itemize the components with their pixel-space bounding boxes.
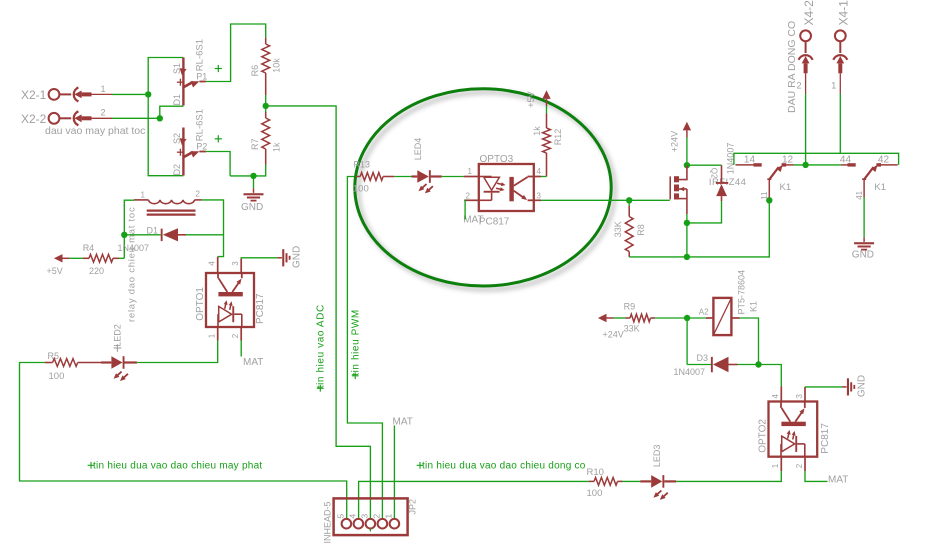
annotation ellipse shadow bbox=[358, 92, 614, 289]
wire X2-2 net riser to D1 bbox=[160, 106, 184, 118]
wire drain node to body diode bbox=[687, 164, 722, 166]
ground GND below R7 bbox=[241, 188, 264, 213]
svg-text:X4-1: X4-1 bbox=[837, 0, 851, 26]
wire X2-2 to junction bbox=[112, 117, 160, 119]
supply +5V for R4 bbox=[47, 254, 70, 276]
wire bottom rail R8 to K1 pin11 bbox=[629, 200, 769, 257]
resistor R6 10k bbox=[250, 38, 282, 95]
svg-text:33K: 33K bbox=[624, 323, 640, 333]
svg-text:D1: D1 bbox=[147, 225, 159, 235]
svg-text:+5V: +5V bbox=[47, 266, 63, 276]
label MAT at JP2 bbox=[393, 416, 413, 427]
resistor R9 33K bbox=[624, 302, 655, 334]
optocoupler OPTO1 PC817 bbox=[195, 257, 266, 341]
svg-text:S2: S2 bbox=[172, 133, 182, 144]
junction X2-2 node bbox=[157, 115, 163, 121]
node + mark near P1 bbox=[215, 65, 222, 72]
svg-text:44: 44 bbox=[840, 154, 852, 165]
wire coil pin1 to left column bbox=[124, 200, 134, 258]
svg-text:1: 1 bbox=[101, 84, 106, 94]
svg-text:GND: GND bbox=[292, 246, 303, 268]
svg-text:1k: 1k bbox=[532, 126, 542, 136]
led LED3 bbox=[640, 445, 676, 500]
svg-text:1: 1 bbox=[141, 190, 146, 199]
wire +24V to drain node bbox=[686, 138, 688, 166]
wire K1 pin41 to GND bbox=[863, 198, 865, 238]
svg-text:3: 3 bbox=[537, 192, 542, 201]
svg-text:3: 3 bbox=[231, 261, 240, 266]
optocoupler OPTO2 PC817 bbox=[757, 386, 831, 471]
svg-text:4: 4 bbox=[208, 261, 217, 266]
svg-text:R5: R5 bbox=[48, 351, 60, 361]
resistor R5 100 bbox=[45, 351, 101, 382]
label tin hieu dua vao dao chieu dong co bbox=[417, 461, 586, 472]
svg-text:RL-6S1: RL-6S1 bbox=[195, 39, 206, 71]
svg-text:MAT: MAT bbox=[463, 215, 483, 226]
svg-text:RL-6S1: RL-6S1 bbox=[195, 109, 206, 141]
svg-text:R9: R9 bbox=[624, 302, 636, 312]
svg-text:10k: 10k bbox=[271, 58, 281, 73]
svg-text:K1: K1 bbox=[874, 182, 886, 193]
wire R4 to column bbox=[119, 257, 124, 259]
wire pin12 to pin44 segment bbox=[794, 164, 841, 166]
connector pin X2-1 bbox=[21, 84, 112, 102]
svg-text:R13: R13 bbox=[354, 160, 371, 170]
connector pin X4-1 bbox=[831, 0, 850, 94]
wire coil pin2 down to OPTO1 pin 4 bbox=[202, 200, 224, 257]
svg-text:14: 14 bbox=[744, 154, 756, 165]
svg-text:dau vao may phat toc: dau vao may phat toc bbox=[45, 125, 145, 137]
annotation ellipse highlight bbox=[355, 89, 611, 286]
svg-text:tin hieu dua vao dao chieu may: tin hieu dua vao dao chieu may phat bbox=[93, 461, 262, 472]
label MAT at OPTO1 bbox=[243, 357, 263, 368]
svg-text:X4-2: X4-2 bbox=[802, 0, 816, 26]
wire OPTO1 pin2 to MAT bbox=[240, 341, 242, 357]
svg-text:R4: R4 bbox=[83, 243, 95, 253]
wire OPTO2 pin2 to MAT bbox=[805, 471, 828, 481]
svg-text:S1: S1 bbox=[172, 63, 182, 74]
wire PWM net from R13 down to JP2 pin 2 bbox=[347, 177, 382, 520]
junction bottom rail center bbox=[684, 254, 690, 260]
resistor R13 100 bbox=[353, 160, 394, 195]
label MAT at OPTO3 bbox=[463, 215, 483, 226]
wire A1 node to OPTO2 pin4 bbox=[759, 365, 782, 387]
svg-text:220: 220 bbox=[89, 266, 104, 276]
led LED4 bbox=[412, 138, 442, 194]
wire X4-1 down to rail bbox=[839, 94, 841, 154]
svg-text:2: 2 bbox=[466, 192, 471, 201]
svg-text:JP2: JP2 bbox=[408, 499, 418, 515]
wire R9 to A2 node bbox=[655, 317, 687, 319]
svg-text:MAT: MAT bbox=[393, 416, 413, 427]
diode D3 1N4007 bbox=[674, 353, 738, 377]
svg-text:2: 2 bbox=[795, 463, 804, 468]
connector pin X2-2 bbox=[21, 108, 112, 126]
svg-text:P1: P1 bbox=[196, 71, 207, 81]
svg-text:+24V: +24V bbox=[603, 330, 624, 340]
wire source node down bbox=[686, 214, 688, 257]
wire OPTO1 pin1 down to LED2 row bbox=[137, 341, 218, 363]
junction drain node bbox=[684, 162, 690, 168]
svg-text:+24V: +24V bbox=[670, 131, 680, 152]
net label tin hieu vao ADC bbox=[316, 304, 327, 391]
wire R13 to LED4 bbox=[394, 176, 411, 178]
junction X4-2/pin12 node bbox=[802, 162, 808, 168]
label relay dao chieu mat toc bbox=[127, 207, 138, 322]
svg-text:K1: K1 bbox=[780, 182, 792, 193]
svg-text:OPTO1: OPTO1 bbox=[195, 287, 206, 321]
svg-text:R12: R12 bbox=[553, 129, 563, 146]
junction GND rail bbox=[250, 173, 256, 179]
svg-text:PC817: PC817 bbox=[820, 423, 831, 454]
svg-text:5: 5 bbox=[335, 514, 345, 519]
wire OPTO1 pin3 to GND bbox=[241, 257, 277, 260]
wire D3 cathode side bbox=[687, 364, 711, 366]
wire LED4 to OPTO3 pin1 bbox=[442, 176, 464, 178]
svg-text:INHEAD-5: INHEAD-5 bbox=[323, 501, 333, 543]
wire D1 anode-side bbox=[124, 234, 160, 236]
svg-text:DAU RA DONG CO: DAU RA DONG CO bbox=[786, 21, 798, 113]
svg-text:MAT: MAT bbox=[828, 475, 848, 486]
svg-text:100: 100 bbox=[587, 488, 603, 499]
junction D3/A1 node bbox=[755, 361, 761, 367]
wire OPTO2 pin3 to GND bbox=[805, 386, 842, 388]
svg-text:relay dao chieu mat toc: relay dao chieu mat toc bbox=[127, 207, 138, 322]
svg-text:1: 1 bbox=[468, 167, 473, 176]
svg-text:A2: A2 bbox=[699, 308, 709, 317]
relay contact K1 14/12/11 bbox=[736, 154, 794, 200]
svg-text:PC817: PC817 bbox=[255, 293, 266, 324]
label DAU RA DONG CO bbox=[786, 21, 798, 113]
svg-text:tin hieu PWM: tin hieu PWM bbox=[351, 309, 362, 376]
resistor R8 33K bbox=[613, 200, 646, 257]
wire R6 bottom to junction bbox=[265, 95, 267, 112]
svg-text:tin hieu vao ADC: tin hieu vao ADC bbox=[316, 304, 327, 388]
svg-text:4: 4 bbox=[771, 394, 780, 399]
wire stub to GND bbox=[253, 176, 255, 188]
ground GND at K1 bbox=[852, 237, 874, 260]
wire D3 to A1 node bbox=[738, 364, 759, 366]
wire divider output to ADC net down to JP2 pin 3 bbox=[266, 106, 371, 519]
label MAT at OPTO2 bbox=[828, 475, 848, 486]
origin cross at LED2 bbox=[114, 344, 122, 352]
wire P2 to GND rail bbox=[206, 152, 230, 176]
diode body 1N4007 at Q2 bbox=[716, 143, 736, 201]
relay coil K1 PT5-78604 bbox=[699, 270, 759, 335]
svg-text:OPTO2: OPTO2 bbox=[757, 419, 768, 453]
resistor R7 1k bbox=[250, 112, 282, 165]
supply +24V for R9 bbox=[598, 314, 624, 340]
svg-text:PT5-78604: PT5-78604 bbox=[736, 270, 746, 315]
svg-text:GND: GND bbox=[856, 375, 867, 397]
svg-text:2: 2 bbox=[371, 514, 381, 519]
wire OPTO3 pin3 to MOSFET gate bbox=[541, 199, 670, 201]
svg-text:1N4007: 1N4007 bbox=[674, 367, 706, 377]
wire P1 to R6 top rail bbox=[206, 24, 266, 82]
resistor R4 220 bbox=[83, 243, 119, 276]
svg-text:4: 4 bbox=[537, 167, 542, 176]
svg-text:1: 1 bbox=[383, 514, 393, 519]
wire R12 to OPTO3 pin4 bbox=[541, 176, 547, 178]
svg-text:R8: R8 bbox=[636, 224, 646, 236]
svg-text:LED2: LED2 bbox=[112, 324, 122, 347]
svg-text:2: 2 bbox=[196, 190, 201, 199]
svg-text:2: 2 bbox=[101, 108, 106, 118]
svg-text:2: 2 bbox=[231, 333, 240, 338]
svg-text:GND: GND bbox=[852, 250, 874, 261]
svg-text:R10: R10 bbox=[587, 467, 604, 478]
relay contact P1 RL-6S1 bbox=[172, 39, 207, 106]
svg-text:1k: 1k bbox=[271, 142, 281, 152]
wire A1 down to D3 node bbox=[740, 318, 759, 365]
connector pin X4-2 bbox=[797, 0, 816, 94]
junction X2-1 node bbox=[145, 91, 151, 97]
svg-text:33K: 33K bbox=[613, 221, 623, 237]
relay contact K1 44/42/41 bbox=[840, 154, 898, 200]
svg-text:1: 1 bbox=[831, 80, 836, 90]
wire body diode to source rail bbox=[687, 201, 722, 223]
svg-text:1: 1 bbox=[208, 333, 217, 338]
wire OPTO2 pin1 down to LED3 row bbox=[676, 471, 781, 481]
svg-text:100: 100 bbox=[353, 183, 369, 194]
svg-text:D3: D3 bbox=[697, 353, 709, 363]
wire R10 to LED3 bbox=[623, 480, 641, 482]
wire X2-1 net vertical to S1 and down to D2 bbox=[148, 58, 183, 176]
junction source node bbox=[684, 220, 690, 226]
node + mark near P2 bbox=[215, 135, 222, 142]
svg-text:MAT: MAT bbox=[243, 357, 263, 368]
resistor R12 1k bbox=[532, 114, 563, 177]
svg-text:P2: P2 bbox=[196, 141, 207, 151]
supply +24V top bbox=[670, 122, 692, 152]
wire X4-2 down to pin 12 node bbox=[805, 94, 807, 165]
junction K1 pin11 node bbox=[766, 197, 772, 203]
svg-text:3: 3 bbox=[359, 514, 369, 519]
relay coil K2 (transformer) pins 1-2 bbox=[134, 190, 202, 215]
wire A2 node to coil and down to D3 bbox=[687, 318, 706, 365]
junction A2 node bbox=[684, 315, 690, 321]
transistor Q2 IRFIZ44 bbox=[670, 165, 746, 214]
svg-text:3: 3 bbox=[795, 394, 804, 399]
wire JP2 pin1 to MAT bbox=[393, 426, 395, 520]
svg-text:12: 12 bbox=[782, 154, 794, 165]
svg-text:R6: R6 bbox=[250, 65, 260, 77]
optocoupler OPTO3 PC817 bbox=[464, 154, 542, 228]
svg-text:D2: D2 bbox=[172, 164, 182, 176]
supply +5V for R12 bbox=[526, 90, 551, 108]
diode D1 1N4007 bbox=[118, 225, 187, 253]
wire top rail X4-1 to contacts bbox=[734, 153, 899, 165]
svg-text:GND: GND bbox=[241, 202, 263, 213]
svg-text:R7: R7 bbox=[250, 138, 260, 150]
svg-text:tin hieu dua vao dao chieu don: tin hieu dua vao dao chieu dong co bbox=[422, 461, 586, 472]
led LED2 bbox=[101, 324, 137, 381]
svg-text:LED3: LED3 bbox=[652, 445, 662, 468]
ground GND at OPTO2 bbox=[842, 375, 867, 397]
svg-text:LED4: LED4 bbox=[413, 138, 423, 161]
ground GND at OPTO1 bbox=[277, 246, 302, 268]
svg-text:X2-1: X2-1 bbox=[21, 88, 47, 102]
junction R6/R7 divider node bbox=[263, 103, 269, 109]
svg-text:100: 100 bbox=[49, 371, 65, 382]
wire R7 to GND rail bbox=[230, 165, 266, 176]
junction gate/R8 node bbox=[626, 197, 632, 203]
svg-text:41: 41 bbox=[855, 190, 864, 199]
label tin hieu dua vao dao chieu may phat bbox=[88, 461, 263, 472]
wire +5V to R4 bbox=[70, 257, 83, 259]
svg-text:K1: K1 bbox=[749, 301, 759, 312]
svg-text:+5V: +5V bbox=[526, 92, 536, 108]
svg-text:11: 11 bbox=[760, 191, 769, 200]
net label tin hieu PWM bbox=[351, 309, 362, 379]
svg-text:42: 42 bbox=[878, 154, 890, 165]
wire OPTO3 pin2 to MAT bbox=[463, 200, 466, 219]
connector JP2 INHEAD-5 bbox=[323, 498, 418, 543]
wire left column R5 row to bottom rail bbox=[20, 363, 347, 520]
wire bottom row JP2 pin4 to R10 bbox=[359, 481, 589, 519]
svg-text:X2-2: X2-2 bbox=[21, 112, 47, 126]
svg-text:OPTO3: OPTO3 bbox=[480, 154, 514, 165]
wire X2-1 to junction bbox=[112, 93, 148, 95]
wire D1 to coil pin2 column bbox=[186, 234, 224, 236]
label dau vao may phat toc bbox=[45, 125, 145, 137]
svg-text:D1: D1 bbox=[172, 94, 182, 106]
svg-text:4: 4 bbox=[347, 514, 357, 519]
junction D1 node bbox=[121, 232, 127, 238]
svg-text:1N4007: 1N4007 bbox=[118, 243, 150, 253]
relay contact P2 RL-6S1 bbox=[172, 109, 207, 176]
resistor R10 100 bbox=[587, 467, 623, 499]
wire +24V to R9 bbox=[614, 317, 626, 319]
svg-text:1: 1 bbox=[771, 463, 780, 468]
wire +5V to R12 bbox=[546, 106, 548, 114]
